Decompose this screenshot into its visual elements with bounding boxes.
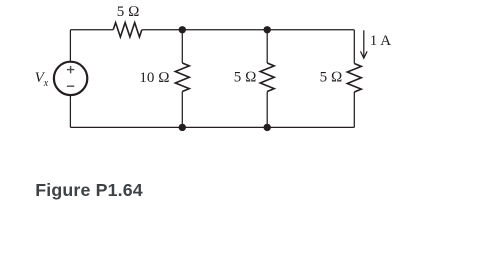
resistor 5 ohm middle (vertical zigzag)	[260, 63, 274, 91]
wire: middle 5 ohm branch upper stub	[266, 30, 268, 63]
wire: left vertical lower (source - terminal to bottom rail)	[69, 95, 71, 128]
node dot: top of 10 ohm branch	[179, 26, 186, 33]
node dot: bottom of middle 5 ohm branch	[264, 124, 271, 131]
wire: top rail right segment	[142, 29, 354, 31]
svg-text:Vx: Vx	[35, 70, 49, 89]
current arrow 1 A (head)	[361, 51, 368, 58]
svg-text:5 Ω: 5 Ω	[117, 4, 140, 20]
wire: middle 5 ohm branch lower stub	[266, 92, 268, 128]
wire: right 5 ohm branch upper stub	[353, 30, 355, 64]
plus sign inside source	[67, 66, 74, 73]
resistor 10 ohm (vertical zigzag)	[175, 63, 189, 91]
resistor R-series 5ohm (horizontal zigzag)	[113, 23, 142, 37]
wire: top rail left segment	[70, 29, 113, 31]
svg-text:Figure P1.64: Figure P1.64	[35, 180, 143, 200]
node dot: top of middle 5 ohm branch	[264, 26, 271, 33]
svg-text:5 Ω: 5 Ω	[234, 69, 257, 85]
minus sign inside source	[67, 85, 74, 87]
svg-text:5 Ω: 5 Ω	[320, 69, 343, 85]
wire: left vertical upper (source + terminal to top rail)	[69, 30, 71, 63]
node dot: bottom of 10 ohm branch	[179, 124, 186, 131]
wire: right 5 ohm branch lower stub	[353, 92, 355, 127]
resistor 5 ohm right (vertical zigzag)	[347, 64, 361, 92]
wire: 10 ohm branch lower stub	[181, 92, 183, 128]
svg-text:1 A: 1 A	[370, 33, 391, 49]
wire: bottom rail	[70, 126, 354, 128]
current arrow 1 A (shaft)	[363, 30, 365, 57]
voltage source Vx (circle)	[54, 62, 87, 95]
svg-text:10 Ω: 10 Ω	[139, 70, 169, 86]
wire: 10 ohm branch upper stub	[181, 30, 183, 63]
